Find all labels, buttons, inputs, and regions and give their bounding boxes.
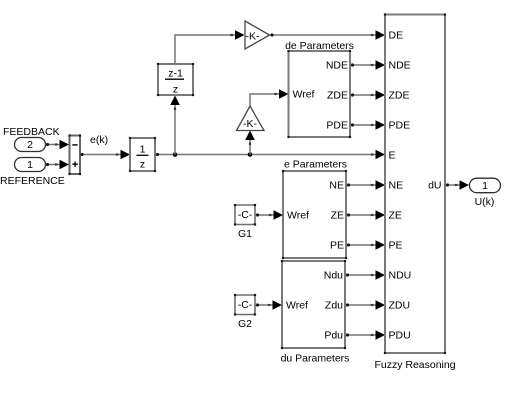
label Fuzzy Reasoning: [374, 359, 455, 371]
wire sum to unit delay: [80, 150, 131, 160]
discrete derivative block (z-1)/z: [157, 63, 194, 96]
svg-text:2: 2: [27, 139, 33, 151]
svg-text:Wref: Wref: [286, 300, 308, 312]
wire PDE to Fuzzy: [350, 120, 385, 130]
label U(k): [475, 196, 495, 208]
junction node on e line (to gain): [248, 152, 253, 157]
svg-text:Fuzzy Reasoning: Fuzzy Reasoning: [374, 359, 455, 371]
svg-text:z-1: z-1: [168, 68, 183, 80]
svg-text:z: z: [140, 159, 145, 171]
junction node on e line (to z-1/z): [173, 152, 178, 157]
label du Parameters: [281, 353, 350, 365]
label G1: [238, 228, 252, 240]
label e Parameters: [284, 159, 347, 171]
wire ZE to Fuzzy: [346, 210, 385, 220]
wire ZDE to Fuzzy: [350, 90, 385, 100]
svg-text:z: z: [173, 84, 178, 96]
label de Parameters: [285, 40, 354, 52]
svg-text:Ndu: Ndu: [324, 270, 343, 282]
node e(k) label: [90, 134, 108, 146]
wire Ndu to Fuzzy: [345, 270, 385, 280]
svg-text:ZDU: ZDU: [389, 300, 411, 312]
constant block G2 (-C-): [234, 294, 256, 316]
svg-text:dU: dU: [428, 180, 441, 192]
svg-text:E: E: [389, 150, 396, 162]
wire unit delay to Fuzzy E input (main e line): [155, 150, 385, 160]
Fuzzy Reasoning block: [384, 13, 446, 354]
svg-text:1: 1: [140, 143, 146, 155]
unit delay block 1/z: [129, 137, 156, 172]
svg-text:G2: G2: [238, 318, 252, 330]
svg-text:Zdu: Zdu: [325, 300, 343, 312]
constant block G1 (-C-): [234, 204, 256, 226]
wire gain to Fuzzy DE input: [270, 30, 386, 40]
svg-text:REFERENCE: REFERENCE: [0, 175, 65, 187]
svg-text:Wref: Wref: [293, 89, 315, 101]
wire port1 to sum: [46, 160, 70, 170]
e Parameters block (Wref): [282, 170, 347, 259]
wire PE to Fuzzy: [346, 240, 385, 250]
label REFERENCE: [0, 175, 65, 187]
svg-text:-K-: -K-: [246, 30, 261, 42]
svg-text:FEEDBACK: FEEDBACK: [3, 126, 60, 138]
svg-text:Wref: Wref: [287, 210, 309, 222]
svg-text:ZDE: ZDE: [389, 90, 410, 102]
svg-text:PDE: PDE: [326, 120, 348, 132]
svg-text:NDE: NDE: [326, 60, 348, 72]
svg-text:ZE: ZE: [389, 210, 402, 222]
wire NDE to Fuzzy: [350, 60, 385, 70]
svg-text:-K-: -K-: [243, 118, 258, 130]
svg-text:PE: PE: [389, 240, 403, 252]
input port 2 (FEEDBACK): [15, 138, 46, 152]
svg-text:NDU: NDU: [389, 270, 412, 282]
sum block (minus/plus): [68, 134, 81, 175]
de Parameters block (Wref): [287, 50, 351, 138]
svg-text:du Parameters: du Parameters: [281, 353, 350, 365]
svg-text:NE: NE: [329, 180, 344, 192]
wire Zdu to Fuzzy: [345, 300, 385, 310]
svg-text:U(k): U(k): [475, 196, 495, 208]
wire port2 to sum: [46, 140, 70, 150]
svg-text:DE: DE: [389, 30, 404, 42]
svg-text:-C-: -C-: [238, 209, 253, 221]
du Parameters block (Wref): [281, 260, 346, 349]
wire Fuzzy dU to output port: [445, 180, 469, 190]
svg-text:e Parameters: e Parameters: [284, 159, 347, 171]
wire junction up to z-1/z: [170, 96, 180, 155]
wire Pdu to Fuzzy: [345, 330, 385, 340]
svg-text:PDE: PDE: [389, 120, 411, 132]
wire junction up to gain K2: [245, 131, 255, 155]
wire NE to Fuzzy: [346, 180, 385, 190]
label G2: [238, 318, 252, 330]
svg-text:ZDE: ZDE: [327, 90, 348, 102]
svg-text:NDE: NDE: [389, 60, 411, 72]
gain block -K- (top, de path): [245, 21, 270, 49]
wire z-1/z to gain K1: [175, 30, 245, 64]
svg-text:-C-: -C-: [238, 299, 253, 311]
svg-text:PDU: PDU: [389, 330, 411, 342]
input port 1 (REFERENCE): [15, 158, 46, 172]
svg-text:G1: G1: [238, 228, 252, 240]
svg-text:ZE: ZE: [331, 210, 344, 222]
svg-text:Pdu: Pdu: [324, 330, 343, 342]
wire G1 to e Parameters Wref: [255, 210, 283, 220]
svg-text:1: 1: [482, 180, 488, 192]
output port 1 (U(k)): [470, 178, 501, 193]
svg-text:1: 1: [27, 159, 33, 171]
wire G2 to du Parameters Wref: [255, 300, 282, 310]
svg-text:NE: NE: [389, 180, 404, 192]
wire gain K2 to de Parameters Wref: [250, 89, 289, 106]
svg-text:PE: PE: [330, 240, 344, 252]
label FEEDBACK: [3, 126, 60, 138]
gain block -K- (pointing up): [237, 106, 265, 131]
svg-text:e(k): e(k): [90, 134, 108, 146]
